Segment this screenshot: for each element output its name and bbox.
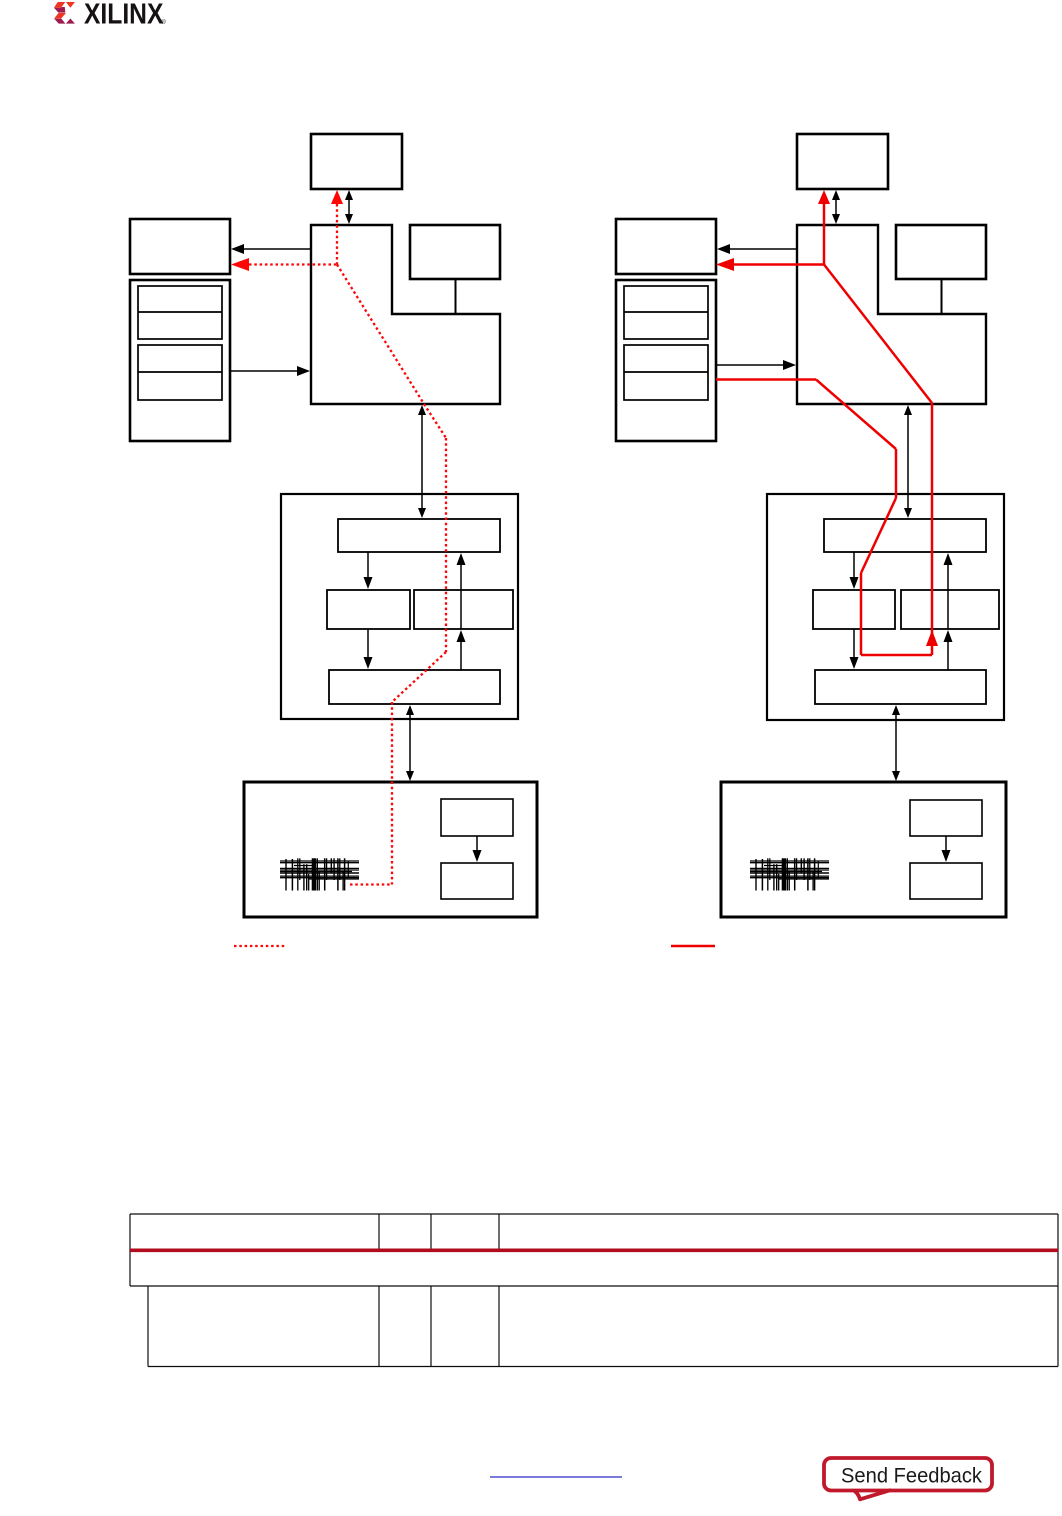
Xilinx logo mark chevron band 3 (orange) (54, 13, 66, 18)
table header column divider 1 (378, 1214, 380, 1249)
red solid route: diagonal inside interconnect (right) (861, 498, 896, 573)
left masters group 2 outer box (138, 345, 222, 400)
arrow: middle-left box down to bottom wide box (364, 629, 373, 669)
arrow: right interconnect top box down to middle-left box (850, 552, 859, 589)
arrow: right masters container to polygon (716, 360, 796, 370)
left interconnect bottom wide box (329, 670, 500, 704)
right diagram masters container box (616, 280, 716, 441)
table body row bottom border (148, 1366, 1058, 1368)
right PL fabric glyph-grid pattern (750, 858, 829, 890)
svg-text:XILINX: XILINX (84, 0, 163, 30)
arrow: masters container to polygon (230, 366, 310, 376)
red solid route: diagonal from masters container (right) (816, 380, 896, 450)
double arrow: interconnect bottom box to PL region (406, 705, 414, 781)
arrow: right polygon to left box (717, 244, 797, 254)
right masters group 2 divider (624, 371, 708, 373)
double arrow: right polygon to interconnect top box (904, 405, 912, 518)
right PL region box (721, 782, 1006, 917)
red dotted route: horizontal to left box (249, 263, 337, 265)
arrow: middle-right box up to interconnect top box (457, 553, 466, 629)
red dotted route arrowhead up into top box (331, 190, 343, 204)
red dotted route: diagonal to bottom wide box (392, 652, 446, 702)
table body column divider 3 (498, 1286, 500, 1367)
legend dotted red sample line (left) (234, 945, 285, 947)
right masters group 1 outer box (624, 286, 708, 339)
double arrow: right top box to polygon (832, 190, 840, 224)
table maroon header underline (130, 1249, 1058, 1253)
red solid route arrowhead up into middle-right box (right) (926, 630, 938, 646)
red solid route: horizontal from masters container (right) (716, 378, 816, 381)
left diagram left box (slaves) (130, 219, 230, 274)
table middle row bottom border (130, 1285, 1058, 1287)
double arrow: right interconnect bottom box to PL region (892, 705, 900, 781)
arrow: bottom wide box up to middle-right box (457, 630, 466, 670)
left interconnect middle-left box (327, 590, 410, 629)
left PL inner bottom box (441, 863, 513, 899)
arrow: interconnect top box down to middle-left box (364, 552, 373, 589)
legend solid red sample line (right) (671, 945, 715, 948)
left interconnect middle-right box (414, 590, 513, 629)
Xilinx logo mark chevron band 2 (maroon) (54, 7, 65, 13)
Xilinx logo mark top-right triangle (orange) (66, 2, 75, 8)
right diagram left box (slaves) (616, 219, 716, 274)
Send Feedback button bubble (824, 1458, 992, 1491)
right interconnect middle-left box (813, 590, 895, 629)
right interconnect bottom wide box (815, 670, 986, 704)
arrow: right middle-right box up to interconnect top box (944, 553, 953, 629)
red solid route: diagonal through polygon (right) (824, 265, 932, 404)
left diagram masters container box (130, 280, 230, 441)
red solid route: vertical into top box (right) (823, 204, 826, 265)
left diagram right small box (CCI) (410, 225, 500, 279)
red dotted route: diagonal below polygon (424, 404, 446, 438)
left diagram L-shaped memory controller polygon (311, 225, 500, 404)
table outer top border (130, 1213, 1058, 1215)
table header column divider 3 (498, 1214, 500, 1249)
right diagram top box (DDR memory) (797, 134, 888, 189)
right masters group 2 outer box (624, 345, 708, 400)
red dotted route: horizontal to fabric pattern (350, 883, 392, 885)
right interconnect middle-right box (901, 590, 999, 629)
left masters group 1 divider (138, 311, 222, 313)
wire from right small box to polygon step (455, 279, 457, 314)
left interconnect top wide box (338, 519, 500, 552)
left interconnect outer box (281, 494, 518, 719)
right masters group 1 divider (624, 311, 708, 313)
wire from right small box to polygon step (right) (941, 279, 943, 314)
red solid route: horizontal to left box (right) (734, 263, 824, 266)
arrow: polygon to left box (231, 244, 311, 254)
double arrow: top box to polygon (345, 190, 353, 224)
red solid route arrowhead up into top box (right) (818, 190, 830, 204)
left diagram top box (DDR memory) (311, 134, 402, 189)
Send Feedback button tail (855, 1490, 891, 1499)
arrow: PL inner top box to PL inner bottom box (473, 836, 482, 862)
right diagram L-shaped memory controller polygon (797, 225, 986, 404)
left masters group 2 divider (138, 371, 222, 373)
red solid route: vertical through interconnect boxes (right) (931, 403, 934, 655)
left masters group 1 outer box (138, 286, 222, 339)
table header column divider 2 (430, 1214, 432, 1249)
svg-text:Send Feedback: Send Feedback (841, 1465, 982, 1488)
left PL region box (244, 782, 537, 917)
right interconnect top wide box (824, 519, 986, 552)
red solid route: vertical between polygon and interconnect (right) (895, 449, 898, 498)
red dotted route arrowhead left into left box (231, 258, 249, 271)
double arrow: polygon to interconnect top box (418, 405, 426, 518)
table body column divider 2 (430, 1286, 432, 1367)
svg-text:®: ® (161, 18, 166, 26)
red solid route arrowhead left into left box (right) (716, 258, 734, 271)
arrow: right bottom wide box up to middle-right box (944, 630, 953, 670)
red dotted route: vertical through interconnect (445, 438, 447, 652)
right PL inner top box (910, 800, 982, 836)
table body column divider 1 (378, 1286, 380, 1367)
table body row left border (indented) (147, 1286, 149, 1367)
arrow: right PL inner top box to PL inner bottom box (942, 836, 951, 862)
footer blue hyperlink underline (490, 1476, 622, 1478)
left PL fabric glyph-grid pattern (280, 858, 359, 890)
right interconnect outer box (767, 494, 1004, 720)
Xilinx logo mark chevron band 4 (maroon) (54, 19, 65, 24)
Xilinx logo mark bottom-right triangle (maroon) (66, 19, 75, 24)
red solid route: horizontal jog inside interconnect (right) (861, 654, 932, 657)
arrow: right middle-left box down to bottom wide box (850, 629, 859, 669)
red dotted route: vertical into PL region (391, 702, 393, 885)
right diagram right small box (CCI) (896, 225, 986, 279)
right PL inner bottom box (910, 863, 982, 899)
red solid route: vertical jog inside interconnect (right) (860, 573, 863, 655)
red dotted route: vertical into top box (336, 204, 338, 265)
table right border (1057, 1214, 1059, 1367)
table left border upper part (129, 1214, 131, 1286)
left PL inner top box (441, 799, 513, 836)
Xilinx logo mark chevron band 1 (orange) (54, 2, 65, 8)
red dotted route: diagonal through polygon (337, 265, 424, 405)
